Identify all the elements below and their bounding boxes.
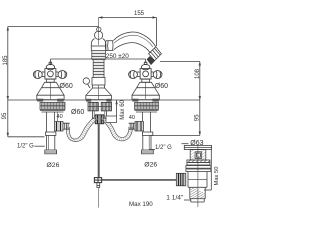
svg-text:Ø26: Ø26 [144, 161, 157, 168]
drain lock rings [186, 160, 211, 172]
svg-text:250 ±20: 250 ±20 [106, 53, 129, 60]
center hose tee [95, 115, 104, 124]
svg-text:Ø26: Ø26 [47, 162, 60, 169]
svg-text:Max 50: Max 50 [214, 166, 220, 185]
dim Max 60 [106, 99, 126, 122]
pop-up knob [83, 78, 90, 88]
svg-text:1/2" G: 1/2" G [17, 144, 34, 150]
right handle base cone [132, 79, 159, 101]
svg-text:95: 95 [2, 112, 8, 119]
spout collar rings [105, 41, 113, 51]
leader 250±20 between handles [50, 53, 145, 64]
svg-text:Ø63: Ø63 [190, 140, 203, 147]
spout center line [98, 18, 100, 46]
faucet body [91, 39, 106, 51]
svg-text:Ø60: Ø60 [60, 83, 73, 90]
spout escutcheon cone [86, 85, 112, 102]
center bracket [92, 111, 106, 119]
drain flange [184, 145, 211, 149]
svg-text:Ø60: Ø60 [71, 109, 84, 116]
svg-text:155: 155 [134, 11, 145, 17]
spout column rings [92, 51, 106, 78]
dimension 155 top [99, 11, 157, 46]
left hose [66, 117, 98, 142]
spout collar block [92, 78, 105, 86]
right valve side fitting [129, 122, 144, 132]
svg-text:Max 190: Max 190 [129, 201, 153, 208]
dimension 95 left [2, 100, 45, 137]
right valve mounting nut [135, 102, 159, 112]
drain tee body [188, 172, 207, 203]
svg-text:1/2" G: 1/2" G [155, 145, 172, 151]
svg-text:Ø60: Ø60 [155, 83, 168, 90]
dimension 108 right [160, 62, 201, 101]
dimension 185 left [3, 27, 99, 101]
deck line [8, 99, 200, 101]
dimension 95 right [152, 100, 202, 136]
pop-up rod vertical [98, 124, 100, 178]
right valve shank [142, 112, 154, 154]
svg-text:1 1/4": 1 1/4" [166, 195, 184, 202]
drain center line [197, 146, 199, 208]
right hose [100, 117, 132, 141]
svg-text:40: 40 [57, 114, 63, 120]
left valve side fitting [55, 122, 70, 132]
thin rod lower [97, 187, 99, 207]
horizontal rod to drain [102, 179, 177, 181]
drain side inlet nut [176, 173, 186, 186]
svg-text:40: 40 [129, 115, 135, 121]
drain body top [190, 149, 206, 160]
svg-text:108: 108 [195, 68, 201, 79]
center mounting nut [88, 102, 112, 111]
left handle base cone [37, 79, 64, 101]
spout tube [114, 32, 156, 53]
svg-text:Max 60: Max 60 [120, 99, 126, 119]
pop-up rod clamp [94, 178, 101, 188]
left valve mounting nut [40, 102, 65, 112]
spout aerator [147, 47, 162, 65]
svg-text:185: 185 [3, 55, 9, 66]
right handle cross [129, 62, 162, 79]
left handle cross [33, 62, 66, 79]
left valve shank [45, 112, 58, 154]
faucet finial [95, 27, 103, 39]
dim Max 50 [204, 150, 220, 191]
svg-text:95: 95 [195, 114, 201, 121]
